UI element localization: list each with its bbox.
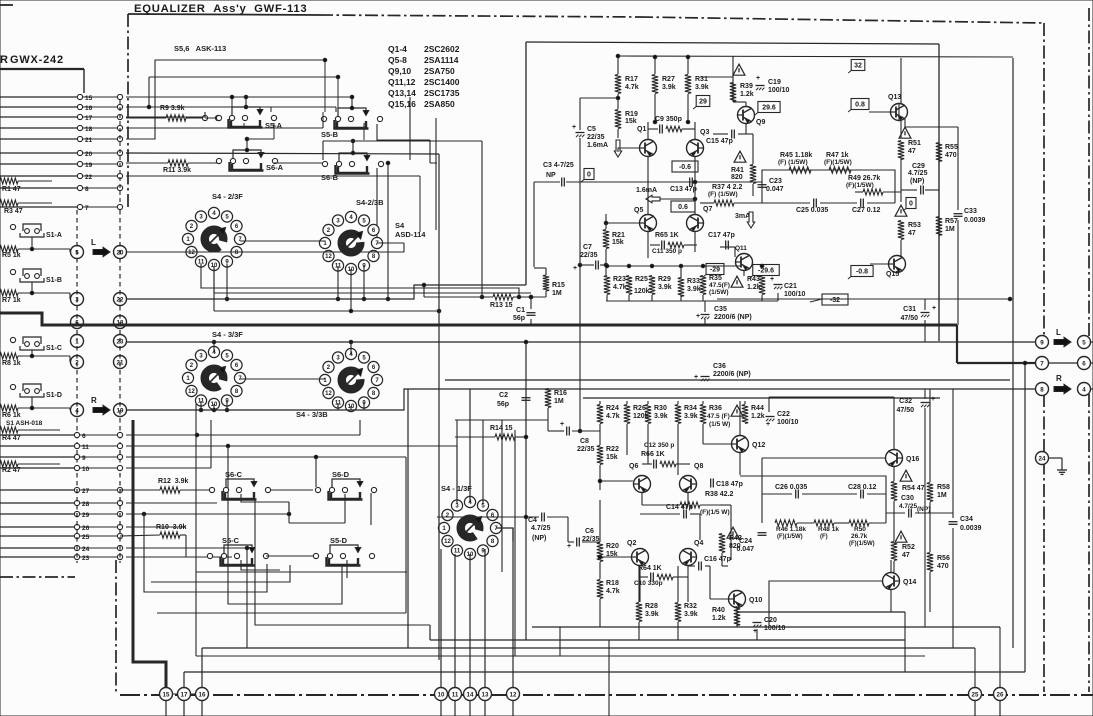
svg-text:6: 6 [82,433,86,440]
svg-text:23: 23 [82,555,90,562]
svg-text:R50: R50 [854,526,866,533]
svg-text:4.7k: 4.7k [625,84,639,91]
svg-text:Q13: Q13 [888,94,901,101]
svg-text:24: 24 [82,546,90,553]
svg-text:4.7/25: 4.7/25 [531,525,551,532]
svg-text:C3 4-7/25: C3 4-7/25 [543,162,574,169]
svg-text:(F)(1/5W): (F)(1/5W) [824,159,852,166]
svg-text:4: 4 [1082,386,1086,393]
svg-text:R25: R25 [635,276,648,283]
svg-text:+: + [567,543,571,550]
svg-text:47.5 (F): 47.5 (F) [707,413,730,420]
svg-text:ASD-114: ASD-114 [395,230,426,239]
svg-text:22: 22 [85,174,93,181]
svg-text:R24: R24 [606,405,619,412]
svg-text:Q16: Q16 [906,456,919,463]
svg-text:R15: R15 [552,282,565,289]
svg-text:0.047: 0.047 [766,186,784,193]
svg-text:C19: C19 [768,79,781,86]
svg-text:R: R [91,396,97,405]
svg-text:100/10: 100/10 [784,291,806,298]
svg-text:100/10: 100/10 [768,87,790,94]
svg-text:17: 17 [85,115,93,122]
svg-text:18: 18 [85,126,93,133]
svg-text:11: 11 [454,549,461,555]
svg-text:Q14: Q14 [903,579,916,586]
svg-text:C13 47p: C13 47p [670,186,697,193]
svg-text:(1/5 W): (1/5 W) [709,421,730,428]
svg-text:0.6: 0.6 [678,204,688,211]
svg-text:47: 47 [908,148,916,155]
svg-text:C11 350 p: C11 350 p [652,248,682,255]
svg-text:S6-B: S6-B [321,173,339,182]
svg-text:16: 16 [199,691,206,698]
svg-text:R9 3.9k: R9 3.9k [160,105,185,112]
svg-text:R53: R53 [908,222,921,229]
svg-text:C17 47p: C17 47p [708,232,735,239]
svg-text:12: 12 [325,391,332,397]
svg-text:9: 9 [82,455,86,462]
svg-text:S5,6 ASK-113: S5,6 ASK-113 [174,44,226,53]
svg-text:R27: R27 [662,76,675,83]
svg-text:R45 1.18k: R45 1.18k [780,152,812,159]
svg-text:47.5(F): 47.5(F) [709,282,730,289]
svg-text:L: L [91,238,96,247]
svg-text:100/10: 100/10 [777,419,799,426]
svg-text:R17: R17 [625,76,638,83]
svg-text:R28: R28 [645,603,658,610]
svg-text:22/35: 22/35 [580,252,598,259]
svg-text:C32: C32 [899,398,912,405]
svg-text:-0.8: -0.8 [856,269,868,276]
svg-text:12: 12 [188,389,195,395]
svg-text:13: 13 [482,691,489,698]
svg-text:0.047: 0.047 [736,546,754,553]
svg-text:1M: 1M [554,398,564,405]
svg-text:11: 11 [82,444,89,451]
svg-text:Q1-4: Q1-4 [388,44,407,54]
svg-text:C23: C23 [769,178,782,185]
svg-text:R51: R51 [908,140,921,147]
svg-text:12: 12 [510,691,517,698]
svg-text:0.8: 0.8 [855,102,865,109]
svg-text:470: 470 [945,152,957,159]
svg-text:C35: C35 [714,306,727,313]
svg-text:(F) (1/5W): (F) (1/5W) [778,159,808,166]
svg-text:10: 10 [438,691,445,698]
svg-text:R56: R56 [937,555,950,562]
svg-text:R19: R19 [625,111,638,118]
svg-text:R41: R41 [731,167,744,174]
svg-text:Q7: Q7 [703,206,712,213]
svg-text:S4 - 2/3F: S4 - 2/3F [212,192,243,201]
svg-text:S4 - 3/3F: S4 - 3/3F [212,330,243,339]
svg-text:24: 24 [1039,455,1046,462]
svg-text:R43: R43 [747,276,760,283]
svg-text:R40: R40 [712,607,725,614]
svg-text:47/50: 47/50 [900,315,918,322]
svg-text:R49 26.7k: R49 26.7k [848,175,880,182]
svg-text:1.2k: 1.2k [747,284,761,291]
svg-text:20: 20 [85,151,93,158]
svg-text:Q11,12: Q11,12 [388,77,416,87]
svg-text:(F)(1/5 W): (F)(1/5 W) [700,509,730,516]
svg-text:C7: C7 [583,244,592,251]
svg-text:3.9k: 3.9k [687,286,701,293]
svg-text:C25 0.035: C25 0.035 [796,207,828,214]
svg-text:C10 330p: C10 330p [634,580,663,587]
svg-text:R1 47: R1 47 [2,186,21,193]
svg-text:28: 28 [82,501,90,508]
svg-text:C33: C33 [964,208,977,215]
svg-text:1.2k: 1.2k [740,91,754,98]
svg-text:C15 47p: C15 47p [706,138,733,145]
svg-text:3.9k: 3.9k [654,413,668,420]
svg-text:26: 26 [997,691,1004,698]
svg-text:17: 17 [181,691,188,698]
svg-text:820: 820 [731,174,743,181]
svg-text:R22: R22 [606,446,619,453]
svg-text:Q2: Q2 [627,540,636,547]
svg-text:C18 47p: C18 47p [716,481,743,488]
svg-text:Q10: Q10 [749,597,762,604]
svg-text:47/50: 47/50 [896,407,914,414]
svg-text:5: 5 [1082,339,1086,346]
svg-text:(NP): (NP) [910,178,924,185]
svg-text:(NP): (NP) [532,535,546,542]
svg-text:R32: R32 [684,603,697,610]
svg-text:1.6mA: 1.6mA [636,187,657,194]
svg-text:R6 1k: R6 1k [2,412,21,419]
svg-text:S4 - 3/3B: S4 - 3/3B [296,410,328,419]
svg-text:4.7k: 4.7k [606,588,620,595]
svg-text:GWX-242: GWX-242 [10,54,64,66]
svg-text:R21: R21 [612,232,625,239]
svg-text:100/10: 100/10 [764,625,786,632]
svg-text:56p: 56p [497,401,509,408]
svg-text:4.7/25: 4.7/25 [899,503,917,510]
svg-text:Q9,10: Q9,10 [388,66,411,76]
svg-text:21: 21 [85,137,93,144]
svg-text:2200/6 (NP): 2200/6 (NP) [714,314,752,321]
svg-text:C26 0.035: C26 0.035 [775,484,807,491]
svg-text:0.0039: 0.0039 [964,217,986,224]
svg-text:120k: 120k [634,288,650,295]
svg-text:10: 10 [82,466,90,473]
svg-text:C5: C5 [587,126,596,133]
svg-text:C21: C21 [784,283,797,290]
svg-text:Q12: Q12 [752,442,765,449]
svg-text:15: 15 [85,95,93,102]
svg-text:R55: R55 [945,144,958,151]
svg-text:1.6mA: 1.6mA [587,142,608,149]
svg-text:-29.6: -29.6 [758,268,774,275]
svg-text:2SA750: 2SA750 [424,66,455,76]
svg-text:C6: C6 [585,528,594,535]
svg-text:C9 350p: C9 350p [655,116,682,123]
svg-text:Q15,16: Q15,16 [388,99,416,109]
svg-text:R44: R44 [751,405,764,412]
svg-text:1.2k: 1.2k [712,615,726,622]
svg-text:R29: R29 [658,276,671,283]
svg-text:R14 15: R14 15 [490,425,513,432]
svg-text:R54 47: R54 47 [902,485,925,492]
svg-text:C27 0.12: C27 0.12 [852,207,881,214]
svg-text:(1/5W): (1/5W) [709,289,729,296]
svg-text:R57: R57 [945,218,958,225]
svg-text:56p: 56p [513,315,525,322]
svg-text:C12 350 p: C12 350 p [644,442,674,449]
svg-text:R65 1K: R65 1K [655,232,679,239]
svg-text:Q1: Q1 [637,126,646,133]
svg-text:3mA: 3mA [735,213,750,220]
svg-text:R52: R52 [902,544,915,551]
svg-text:R36: R36 [709,405,722,412]
svg-text:29: 29 [699,99,707,106]
svg-text:16: 16 [85,105,93,112]
svg-text:R66 1K: R66 1K [641,451,665,458]
svg-text:Q8: Q8 [694,463,703,470]
svg-text:R20: R20 [606,543,619,550]
svg-text:2SC1735: 2SC1735 [424,88,460,98]
svg-text:S6-D: S6-D [332,470,350,479]
svg-text:Q15: Q15 [886,271,899,278]
svg-text:Q11: Q11 [735,245,747,252]
svg-text:+: + [931,396,935,403]
svg-text:R58: R58 [937,484,950,491]
svg-text:9: 9 [1040,339,1044,346]
svg-text:47: 47 [902,552,910,559]
svg-text:S1-A: S1-A [46,232,62,239]
svg-text:+: + [696,313,700,320]
svg-text:15k: 15k [625,118,637,125]
svg-text:S4: S4 [395,221,405,230]
svg-text:C29: C29 [912,163,925,170]
svg-text:Q5: Q5 [634,207,643,214]
svg-text:S6-C: S6-C [225,470,243,479]
svg-text:R30: R30 [654,405,667,412]
svg-text:R23: R23 [613,276,626,283]
svg-text:R47 1k: R47 1k [826,152,849,159]
svg-text:12: 12 [444,539,451,545]
svg-text:R5 1k: R5 1k [2,252,21,259]
svg-text:7: 7 [85,205,89,212]
svg-text:+: + [932,305,936,312]
svg-text:1M: 1M [945,226,955,233]
svg-text:S5-D: S5-D [330,536,348,545]
svg-text:R4 47: R4 47 [2,435,21,442]
svg-text:C28 0.12: C28 0.12 [848,484,877,491]
svg-text:0: 0 [587,172,591,179]
svg-text:+: + [756,75,760,82]
svg-text:R64 1K: R64 1K [638,565,662,572]
svg-text:C22: C22 [777,411,790,418]
svg-text:15k: 15k [606,454,618,461]
svg-text:19: 19 [85,162,93,169]
svg-text:2SC2602: 2SC2602 [424,44,460,54]
svg-text:R10 3.9k: R10 3.9k [156,524,186,531]
svg-text:S6-A: S6-A [266,163,284,172]
svg-text:27: 27 [82,488,90,495]
svg-text:R7 1k: R7 1k [2,297,21,304]
svg-text:C20: C20 [764,617,777,624]
svg-text:25: 25 [82,534,90,541]
svg-text:4.7/25: 4.7/25 [908,170,928,177]
svg-text:-0.6: -0.6 [679,164,691,171]
svg-text:Q13,14: Q13,14 [388,88,416,98]
svg-text:S5-C: S5-C [222,536,240,545]
svg-text:3.9k: 3.9k [662,84,676,91]
svg-text:0.0039: 0.0039 [960,525,982,532]
svg-text:C8: C8 [580,438,589,445]
svg-text:R46 1.18k: R46 1.18k [776,526,806,533]
svg-text:Q4: Q4 [694,540,703,547]
svg-text:47: 47 [908,230,916,237]
svg-text:Q3: Q3 [700,129,709,136]
svg-text:32: 32 [854,63,862,70]
svg-text:R33: R33 [687,278,700,285]
svg-text:C36: C36 [713,363,726,370]
svg-text:22/35: 22/35 [577,446,595,453]
svg-text:NP: NP [546,172,556,179]
svg-text:6: 6 [1082,360,1086,367]
svg-text:R38 42.2: R38 42.2 [705,491,734,498]
svg-text:S1-D: S1-D [46,392,62,399]
svg-text:+: + [572,124,576,131]
svg-text:3.9k: 3.9k [695,84,709,91]
svg-text:C4: C4 [528,517,537,524]
svg-text:(F) (1/5W): (F) (1/5W) [708,191,738,198]
svg-text:2SA850: 2SA850 [424,99,455,109]
svg-text:8: 8 [85,186,89,193]
svg-text:R48 1k: R48 1k [818,526,839,533]
svg-text:R12 3.9k: R12 3.9k [158,478,188,485]
svg-text:(F)(1/5W): (F)(1/5W) [849,541,875,547]
svg-text:+: + [766,421,770,428]
svg-text:R37 4 2.2: R37 4 2.2 [712,184,742,191]
svg-text:-32: -32 [830,297,840,304]
svg-text:R3 47: R3 47 [4,208,23,215]
svg-text:(F)(1/5W): (F)(1/5W) [777,534,803,540]
svg-text:3.9k: 3.9k [684,413,698,420]
svg-text:2200/6 (NP): 2200/6 (NP) [713,371,751,378]
svg-text:L: L [1056,328,1061,337]
svg-text:26: 26 [82,525,90,532]
svg-text:R16: R16 [554,390,567,397]
svg-text:+: + [753,628,757,635]
svg-text:+: + [573,265,577,272]
svg-text:29.6: 29.6 [762,105,776,112]
svg-text:R35: R35 [709,275,722,282]
svg-text:7: 7 [1040,360,1044,367]
svg-text:1.2k: 1.2k [751,413,765,420]
svg-text:4.7k: 4.7k [606,413,620,420]
svg-text:-29: -29 [710,267,720,274]
svg-text:Q5-8: Q5-8 [388,55,407,65]
svg-text:25: 25 [972,691,979,698]
svg-text:S1-C: S1-C [46,345,62,352]
svg-text:(NP): (NP) [917,506,930,513]
svg-text:+: + [560,421,564,428]
svg-text:R13 15: R13 15 [490,302,513,309]
svg-text:2SA1114: 2SA1114 [424,55,459,65]
svg-text:1M: 1M [552,290,562,297]
svg-text:12: 12 [325,254,332,260]
svg-text:Q6: Q6 [629,463,638,470]
svg-text:15: 15 [163,691,170,698]
svg-text:R34: R34 [684,405,697,412]
svg-text:0: 0 [909,201,913,208]
svg-text:12: 12 [188,250,195,256]
svg-text:8: 8 [1040,386,1044,393]
svg-text:+: + [694,374,698,381]
svg-text:29: 29 [82,512,90,519]
svg-text:22/35: 22/35 [587,134,605,141]
svg-text:C14 47p: C14 47p [666,504,693,511]
svg-text:3.9k: 3.9k [645,611,659,618]
svg-text:R39: R39 [740,83,753,90]
svg-text:14: 14 [467,691,474,698]
svg-text:C30: C30 [901,495,914,502]
svg-text:R: R [0,54,8,66]
svg-text:R31: R31 [695,76,708,83]
svg-text:C16 47p: C16 47p [704,556,731,563]
svg-text:EQUALIZER Ass'y GWF-113: EQUALIZER Ass'y GWF-113 [134,3,307,15]
svg-text:R18: R18 [606,580,619,587]
svg-text:C34: C34 [960,516,973,523]
svg-text:R8 1k: R8 1k [2,360,21,367]
svg-text:Q9: Q9 [756,119,765,126]
svg-text:(F): (F) [820,534,828,540]
svg-text:R11 3.9k: R11 3.9k [163,167,191,174]
svg-text:11: 11 [452,691,459,698]
svg-text:C31: C31 [903,306,916,313]
svg-text:470: 470 [937,563,949,570]
svg-text:3.9k: 3.9k [684,611,698,618]
svg-text:S1-B: S1-B [46,277,62,284]
svg-text:R: R [1056,374,1062,383]
svg-text:R26: R26 [633,405,646,412]
svg-text:S4-2/3B: S4-2/3B [356,198,384,207]
svg-text:S5-B: S5-B [321,130,339,139]
svg-text:C1: C1 [516,307,525,314]
svg-text:C2: C2 [499,392,508,399]
svg-text:3.9k: 3.9k [658,284,672,291]
svg-text:C24: C24 [739,538,752,545]
svg-text:26.7k: 26.7k [851,533,868,540]
svg-text:15k: 15k [612,239,624,246]
svg-text:+: + [770,276,774,283]
svg-text:(F)(1/5W): (F)(1/5W) [846,182,874,189]
svg-text:1M: 1M [937,492,947,499]
svg-text:4.7k: 4.7k [613,284,627,291]
svg-text:2SC1400: 2SC1400 [424,77,460,87]
